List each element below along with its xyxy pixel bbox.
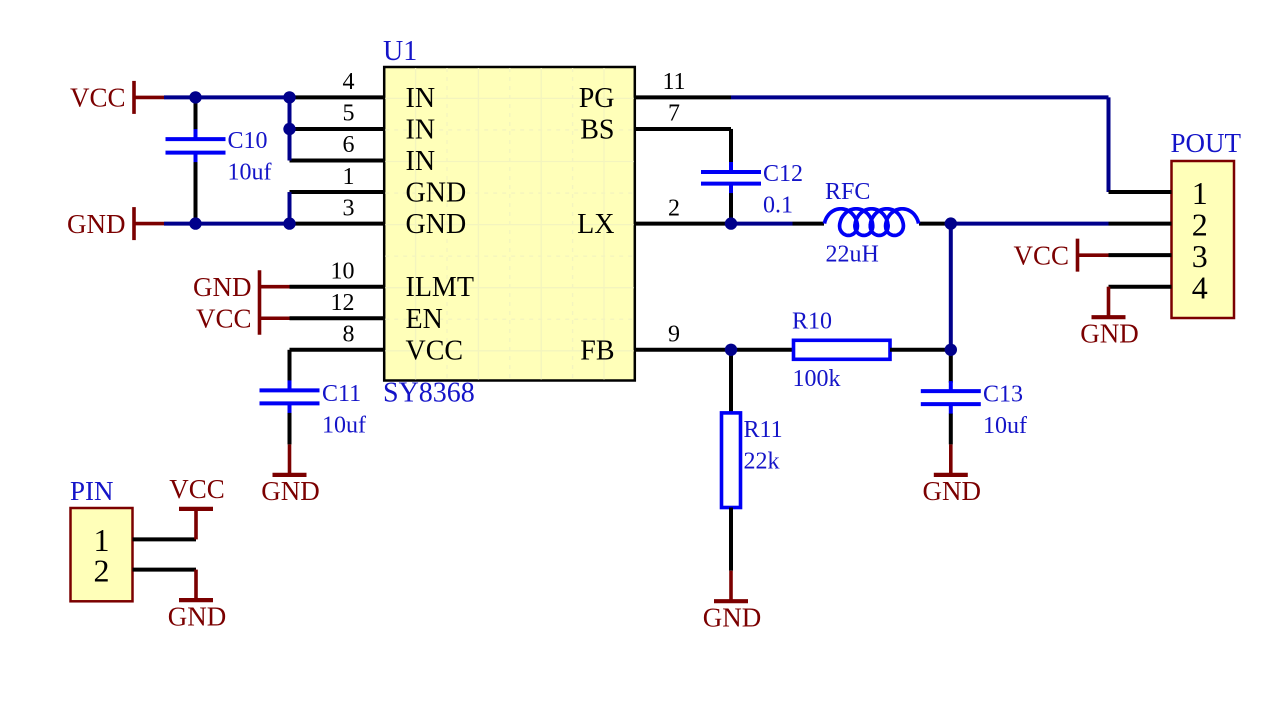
svg-text:10uf: 10uf [983, 413, 1027, 439]
svg-text:2: 2 [668, 195, 680, 221]
svg-text:IN: IN [406, 146, 436, 177]
svg-text:10: 10 [331, 258, 355, 284]
svg-text:GND: GND [67, 209, 126, 239]
svg-text:3: 3 [343, 195, 355, 221]
svg-text:U1: U1 [383, 36, 417, 67]
svg-text:VCC: VCC [169, 474, 225, 504]
svg-text:SY8368: SY8368 [383, 378, 475, 409]
svg-text:C13: C13 [983, 381, 1023, 407]
svg-text:VCC: VCC [70, 83, 126, 113]
svg-text:C10: C10 [228, 128, 268, 154]
svg-text:10uf: 10uf [322, 413, 366, 439]
svg-text:GND: GND [406, 178, 467, 209]
svg-text:C11: C11 [322, 381, 361, 407]
svg-text:C12: C12 [763, 161, 803, 187]
svg-text:9: 9 [668, 322, 680, 348]
svg-text:GND: GND [406, 209, 467, 240]
svg-text:POUT: POUT [1171, 128, 1242, 158]
svg-text:LX: LX [577, 209, 614, 240]
svg-text:PG: PG [579, 83, 615, 114]
svg-text:2: 2 [94, 552, 110, 588]
svg-text:GND: GND [193, 272, 252, 302]
svg-text:22k: 22k [744, 449, 780, 475]
svg-text:GND: GND [923, 476, 982, 506]
svg-text:IN: IN [406, 83, 436, 114]
svg-text:GND: GND [703, 602, 762, 632]
svg-text:GND: GND [1080, 318, 1139, 348]
svg-text:PIN: PIN [70, 476, 114, 506]
svg-text:4: 4 [1192, 269, 1208, 305]
svg-text:BS: BS [580, 114, 614, 145]
svg-text:11: 11 [662, 69, 685, 95]
svg-text:7: 7 [668, 101, 680, 127]
svg-text:ILMT: ILMT [406, 272, 474, 303]
svg-text:12: 12 [331, 290, 355, 316]
svg-text:8: 8 [343, 322, 355, 348]
svg-text:4: 4 [343, 69, 355, 95]
svg-text:IN: IN [406, 114, 436, 145]
svg-text:22uH: 22uH [826, 242, 879, 268]
svg-text:1: 1 [343, 164, 355, 190]
svg-text:5: 5 [343, 101, 355, 127]
svg-text:100k: 100k [793, 366, 841, 392]
svg-text:VCC: VCC [406, 335, 464, 366]
svg-text:R10: R10 [792, 308, 832, 334]
svg-text:0.1: 0.1 [763, 192, 793, 218]
svg-text:VCC: VCC [196, 304, 252, 334]
svg-text:GND: GND [168, 601, 227, 631]
svg-text:GND: GND [261, 476, 320, 506]
svg-text:FB: FB [580, 335, 614, 366]
svg-text:EN: EN [406, 304, 443, 335]
svg-text:R11: R11 [744, 417, 783, 443]
svg-text:VCC: VCC [1013, 240, 1069, 270]
svg-text:10uf: 10uf [228, 160, 272, 186]
svg-text:RFC: RFC [825, 179, 870, 205]
svg-text:6: 6 [343, 132, 355, 158]
